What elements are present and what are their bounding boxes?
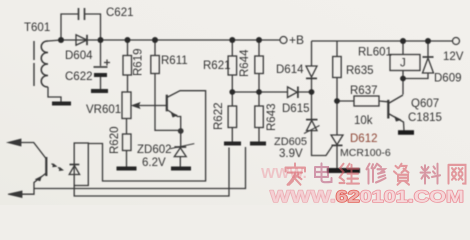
svg-text:C621: C621 (106, 7, 134, 19)
svg-text:RL601: RL601 (358, 47, 392, 59)
svg-text:R611: R611 (161, 55, 188, 67)
svg-text:R620: R620 (109, 127, 121, 155)
svg-text:+B: +B (289, 33, 304, 47)
svg-text:D604: D604 (65, 50, 93, 62)
svg-text:3.9V: 3.9V (279, 148, 303, 160)
svg-text:WWW.620101.COM: WWW.620101.COM (270, 187, 464, 205)
svg-text:Q607: Q607 (411, 98, 439, 110)
svg-text:D609: D609 (434, 73, 462, 85)
svg-text:D614: D614 (276, 64, 304, 76)
svg-text:R621: R621 (203, 60, 231, 72)
svg-text:J: J (400, 58, 406, 70)
svg-text:D612: D612 (350, 133, 378, 145)
svg-text:VR601: VR601 (86, 104, 121, 116)
svg-text:10k: 10k (354, 115, 373, 127)
svg-text:R637: R637 (350, 85, 378, 97)
svg-text:6.2V: 6.2V (142, 157, 166, 169)
svg-text:MCR100-6: MCR100-6 (340, 147, 391, 159)
svg-text:R643: R643 (266, 104, 278, 132)
svg-text:ZD605: ZD605 (274, 136, 307, 148)
svg-text:C1815: C1815 (408, 112, 442, 124)
svg-text:R635: R635 (346, 65, 374, 77)
svg-text:12V: 12V (443, 51, 464, 63)
svg-text:R644: R644 (239, 49, 251, 77)
svg-text:C622: C622 (65, 71, 93, 83)
svg-text:T601: T601 (24, 22, 50, 34)
svg-text:R619: R619 (133, 49, 145, 77)
svg-text:ZD602: ZD602 (137, 144, 172, 156)
svg-text:R622: R622 (213, 103, 225, 131)
svg-text:D615: D615 (282, 103, 310, 115)
